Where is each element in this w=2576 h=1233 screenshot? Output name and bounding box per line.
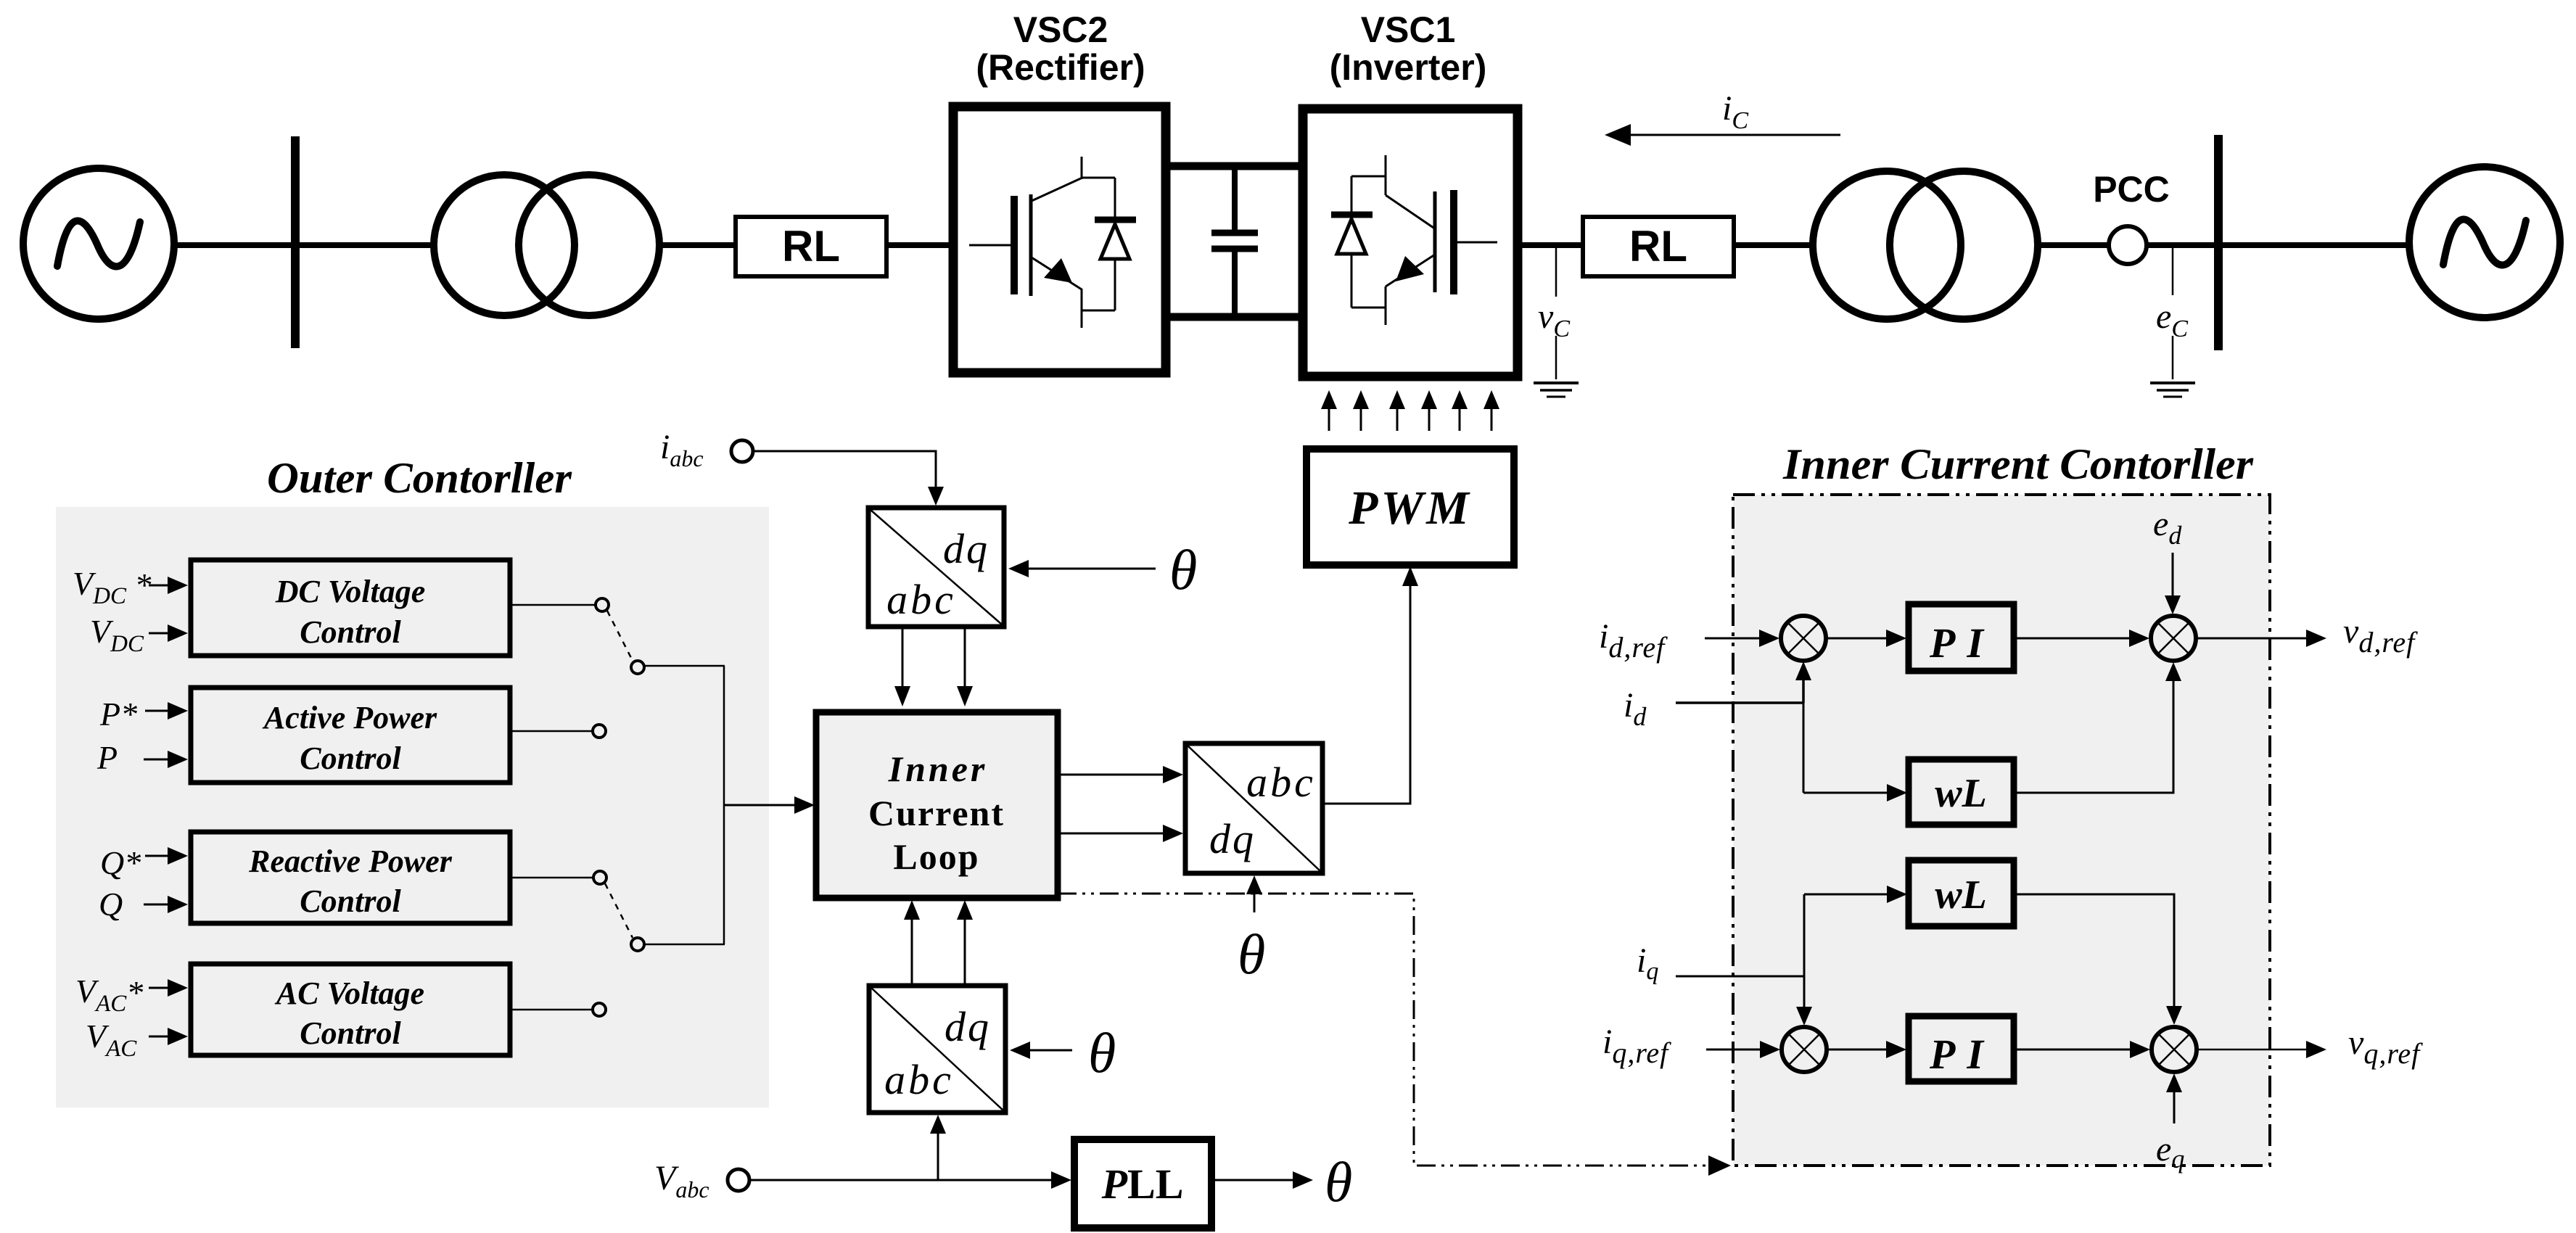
transformer T2 [1813,171,2038,319]
IGBT Q1 inside VSC1 [1386,155,1497,325]
svg-text:(Rectifier): (Rectifier) [976,47,1145,88]
arrow selector to Inner Current Loop [724,796,815,814]
diode D1 inside VSC1 [1331,176,1386,308]
svg-text:DC Voltage: DC Voltage [275,574,426,609]
svg-text:PI: PI [1929,1031,1995,1078]
svg-text:Current: Current [868,793,1005,833]
dash-dot panel box [1733,495,2270,1166]
node eC tap with ground [2150,248,2195,397]
arrow theta into block C [1010,1021,1116,1084]
svg-text:Inner: Inner [888,749,988,789]
converter VSC1 box [1303,109,1518,376]
svg-text:Control: Control [300,883,401,919]
svg-text:PWM: PWM [1348,482,1472,535]
arrow Q into block [144,896,188,913]
svg-text:θ: θ [1325,1150,1352,1213]
svg-text:RL: RL [1629,222,1687,271]
arrow VAC* into block [149,979,188,997]
svg-text:dq: dq [943,525,989,572]
svg-text:θ: θ [1238,923,1265,986]
arrow PI1 to summer S2 [2014,630,2149,647]
svg-text:Outer Contorller: Outer Contorller [267,454,572,502]
svg-text:wL: wL [1935,873,1987,917]
wire PCC to bus2 [2147,242,2249,248]
svg-text:abc: abc [884,1056,954,1103]
arrow eq up into S4 [2166,1073,2182,1123]
IGBT Q2 inside VSC2 [969,157,1082,328]
transform block C abc to dq (lower) [869,986,1005,1113]
outer controller gray panel [56,507,769,1108]
svg-text:PLL: PLL [1101,1160,1184,1208]
wire RL1 to VSC2 [886,242,953,248]
bus bar B2 [2214,135,2223,350]
svg-text:RL: RL [782,222,840,271]
svg-text:PI: PI [1929,619,1995,667]
summing junction S1 [1781,616,1826,661]
Inner Current Loop box [816,712,1058,898]
terminal iabc [660,428,753,471]
resistor-inductor RL1 [736,217,886,276]
DC rail bottom [1166,313,1303,321]
resistor-inductor RL2 [1583,217,1734,276]
svg-text:P*: P* [99,696,137,733]
wire RL2 to transformer T2 [1734,242,1814,248]
arrow id branch to wL1 [1803,784,1907,801]
svg-text:Reactive Power: Reactive Power [248,844,453,879]
label VSC1 (Inverter) [1330,9,1487,88]
wire T2 to PCC [2038,242,2110,248]
wire wL1 up into S2 [2014,662,2181,793]
bus bar B1 [291,136,300,348]
wire T1 to RL1 [659,242,736,248]
arrow ed down into S2 [2165,553,2181,614]
wire bus2 to AC source G2 [2218,242,2410,248]
svg-text:PCC: PCC [2093,169,2170,210]
switch contact from Active Power Control [511,725,606,738]
branch wire Vabc up to block C [930,1115,946,1180]
svg-text:(Inverter): (Inverter) [1330,47,1487,88]
converter VSC2 box [953,107,1166,373]
block DC Voltage Control [191,560,510,656]
arrow PI2 to summer S4 [2014,1041,2150,1058]
arrow S4 output vq,ref [2197,1023,2423,1070]
wL box upper [1909,759,2014,825]
svg-text:θ: θ [1169,538,1197,601]
switch S1 from DC Voltage Control [511,598,725,674]
wire iq input with branch [1676,894,1812,1026]
AC source G1 (left) [23,168,174,319]
AC source G2 (right) [2409,167,2560,318]
transform block A abc to dq [868,508,1004,627]
wire wL2 down into S4 [2014,894,2182,1025]
svg-text:P: P [96,739,118,776]
PLL box [1074,1139,1211,1228]
arrow VDC into block [149,624,188,642]
terminal Vabc [654,1159,749,1203]
svg-text:abc: abc [1246,759,1316,806]
arrow S2 output vd,ref [2196,612,2418,659]
summing junction S2 [2151,616,2196,661]
DC-link capacitor C [1211,166,1258,317]
svg-text:VSC2: VSC2 [1013,9,1108,50]
svg-text:Control: Control [300,614,401,650]
gate pulse arrows (6) from PWM to VSC1 [1321,390,1499,431]
arrow P into block [144,751,188,768]
wire G1 to bus1 [174,242,293,248]
arrow iq,ref into summer S3 [1706,1041,1780,1058]
diode D2 inside VSC2 [1082,178,1136,310]
transformer T1 [434,175,659,316]
dash-dot theta link to Inner Current Contorller [1058,894,1731,1176]
arrow VDC* into block [149,577,188,594]
two arrows block C to ICL bottom [904,900,973,986]
arrow S3 to PI2 [1827,1041,1906,1058]
wire bus1 to transformer T1 [295,242,435,248]
selector bus vertical wire [723,666,725,944]
svg-text:Control: Control [300,1015,401,1051]
label VSC2 (Rectifier) [976,9,1145,88]
wire Vabc to PLL [749,1171,1071,1189]
two output arrows ICL to block B [1058,766,1183,842]
svg-text:dq: dq [945,1003,991,1050]
arrow iq branch to wL2 [1804,886,1907,903]
svg-text:Inner Current Contorller: Inner Current Contorller [1782,440,2254,488]
svg-text:abc: abc [886,576,956,623]
wire id input with branch [1676,661,1811,793]
block AC Voltage Control [191,964,510,1055]
arrow theta into block A [1008,538,1197,601]
summing junction S4 [2152,1027,2197,1072]
two arrows block A to Inner Current Loop [894,627,973,706]
svg-text:wL: wL [1935,771,1987,816]
svg-text:θ: θ [1088,1021,1116,1084]
DC rail top [1166,162,1303,170]
svg-text:Control: Control [300,741,401,776]
wL box lower [1909,860,2014,926]
svg-text:Q: Q [99,886,123,923]
transform block B dq to abc [1185,743,1322,873]
arrow P* into block [145,702,188,719]
wire iabc to transform block A [753,451,944,506]
svg-text:VSC1: VSC1 [1361,9,1456,50]
arrow VAC into block [149,1028,188,1045]
arrow S1 to PI1 [1826,630,1906,647]
PI box upper [1909,604,2014,671]
block Reactive Power Control [191,832,510,923]
arrow PLL output theta [1211,1150,1352,1213]
block Active Power Control [191,688,510,783]
svg-text:Active Power: Active Power [262,700,437,735]
arrow id,ref into summer S1 [1705,630,1779,647]
arrow Q* into block [145,847,188,865]
PWM box [1306,449,1514,565]
svg-text:AC Voltage: AC Voltage [274,976,424,1011]
svg-text:Loop: Loop [893,836,979,877]
current iC arrow [1605,89,1840,146]
summing junction S3 [1782,1027,1827,1072]
arrow theta into block B bottom [1238,875,1265,986]
wire VSC1 to RL2 [1518,242,1583,248]
wire abc/dq to PWM with arrow [1322,566,1418,804]
node vC tap with ground [1534,248,1579,397]
PI box lower [1909,1016,2014,1081]
svg-text:dq: dq [1209,815,1256,862]
svg-text:Q*: Q* [100,844,141,881]
switch S2 from Reactive Power Control [511,871,725,951]
node PCC [2093,169,2170,264]
switch contact from AC Voltage Control [511,1003,606,1016]
